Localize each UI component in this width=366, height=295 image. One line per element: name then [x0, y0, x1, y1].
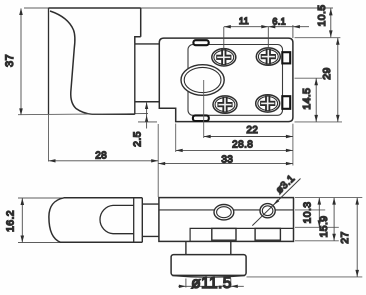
body top extension right: [295, 37, 341, 39]
oval center extension: [203, 80, 205, 138]
svg-text:33: 33: [221, 154, 233, 165]
trigger bottom edge: [92, 113, 135, 115]
dimension 29: [336, 38, 340, 122]
terminal slot right bottom: [282, 96, 290, 109]
body bottom extension right: [295, 121, 343, 123]
screw A top-left: [212, 49, 236, 66]
big oval boss inner: [184, 67, 221, 92]
trigger step: [135, 37, 141, 44]
body side outline: [159, 198, 294, 242]
neck bottom edge: [135, 101, 160, 103]
svg-text:28.8: 28.8: [232, 140, 253, 151]
screw C bottom-left: [213, 96, 237, 113]
dimension 15.9: [332, 198, 336, 241]
svg-text:11: 11: [239, 16, 249, 26]
dimension 22: [204, 135, 293, 138]
screw hole side left: [214, 205, 234, 220]
trigger left edge: [48, 8, 50, 114]
body side inner line: [159, 209, 294, 211]
dimension 2.5: [138, 102, 157, 129]
leader diameter 3.1: [252, 179, 300, 226]
trigger joint line: [133, 198, 135, 243]
body side mid extension right: [295, 209, 325, 211]
svg-text:2.5: 2.5: [132, 131, 144, 147]
svg-text:22: 22: [246, 125, 258, 136]
body inner contour: [188, 45, 283, 116]
stem right edge: [230, 241, 232, 254]
dimension 14.5: [314, 78, 318, 122]
dimension 28: [49, 159, 159, 162]
band top extension right: [295, 226, 339, 228]
screw D bottom-right: [256, 95, 280, 112]
dimension 37: [19, 8, 23, 115]
body left extension down: [157, 124, 159, 197]
svg-text:16.2: 16.2: [5, 210, 17, 232]
body right extension down: [292, 124, 294, 166]
body side top extension right: [295, 197, 362, 199]
trigger slot bullet: [100, 205, 134, 233]
terminal slot side right: [255, 228, 280, 240]
trigger left extension: [48, 114, 50, 161]
dimension diameter 11.5: [178, 279, 244, 289]
16.2 extension top: [18, 197, 64, 199]
dimension 27: [355, 198, 359, 277]
knob bottom arc: [172, 276, 245, 278]
big oval boss outer: [181, 65, 224, 96]
knob bottom extension right: [247, 276, 363, 278]
16.2 extension bottom: [18, 242, 62, 244]
body side bottom extension right: [295, 240, 339, 242]
terminal slot right top: [282, 52, 290, 63]
dimension 33: [158, 162, 293, 165]
terminal slot side left: [212, 228, 236, 240]
svg-text:6.1: 6.1: [272, 17, 286, 27]
trigger side outline: [49, 198, 142, 243]
body centerline extension right: [295, 77, 323, 79]
dimension 10.3: [318, 198, 322, 228]
neck left edge: [134, 44, 136, 114]
trigger front curve: [50, 11, 92, 114]
svg-text:28: 28: [95, 150, 107, 161]
top extension line: [24, 7, 333, 9]
terminal band top: [190, 228, 293, 241]
neck side bottom: [142, 235, 159, 237]
svg-text:ø11.5: ø11.5: [191, 275, 232, 292]
screw B top-right: [256, 48, 280, 65]
step extension down: [175, 124, 177, 153]
dimension 10.5: [329, 8, 333, 37]
svg-text:10.5: 10.5: [316, 4, 328, 26]
dimension 11 and 6.1: [224, 25, 309, 49]
clip tab top: [193, 40, 208, 45]
body outline top view: [159, 38, 293, 122]
svg-text:29: 29: [321, 67, 333, 79]
neck top edge: [135, 43, 160, 45]
screw hole side right: [260, 204, 275, 218]
trigger top edge: [49, 7, 141, 9]
trigger bottom extension: [18, 114, 148, 115]
clip tab bottom: [193, 115, 209, 121]
stem left edge: [185, 241, 187, 254]
dimension 16.2: [21, 198, 25, 243]
svg-text:10.3: 10.3: [302, 201, 314, 223]
trigger right edge: [140, 8, 142, 37]
svg-text:14.5: 14.5: [301, 88, 313, 110]
knob outline: [171, 255, 246, 276]
trigger right edge side: [141, 198, 143, 243]
neck side top: [142, 203, 159, 205]
svg-text:15.9: 15.9: [318, 215, 330, 237]
svg-text:37: 37: [4, 54, 16, 67]
svg-text:27: 27: [339, 231, 351, 243]
dimension 28.8: [176, 149, 293, 152]
